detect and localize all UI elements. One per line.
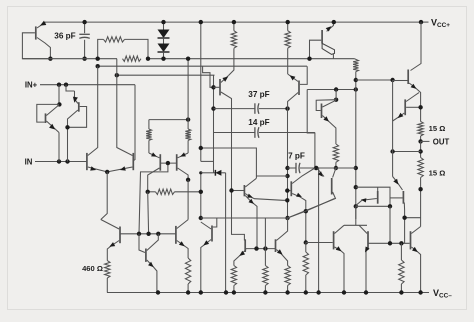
resistor R15 — [418, 122, 423, 137]
svg-text:IN: IN — [25, 157, 33, 166]
node C4 wire junction — [314, 166, 319, 171]
transistor Q24 — [367, 231, 369, 249]
node input pair emitter junction — [105, 170, 109, 174]
node Q17 emitter on rail — [332, 20, 336, 24]
node y151 junction left — [390, 149, 394, 153]
svg-text:IN+: IN+ — [25, 81, 38, 90]
wire x187 column — [187, 180, 189, 220]
wire x390 column — [389, 206, 391, 243]
node rail junction x201 — [199, 20, 203, 24]
node e1 junction — [285, 198, 289, 202]
node D1 anode on rail — [161, 20, 165, 24]
node y89 junction 1 — [334, 87, 338, 91]
transistor Q2 input left — [86, 153, 88, 170]
node line B tap — [96, 64, 100, 68]
node pushbus junction 2 — [263, 246, 267, 250]
wire input clamp column x59 — [58, 85, 60, 105]
wire node A bus (line A) — [22, 58, 117, 60]
wire rail drop x201 — [200, 22, 202, 161]
node IN+ junction 1 — [57, 83, 61, 87]
node 37pF left junction — [211, 106, 215, 110]
resistor R18 — [303, 252, 308, 275]
wire x392.6 column — [392, 80, 394, 177]
diode D1 — [163, 22, 165, 29]
wire collector trapezoid — [344, 224, 367, 226]
node y218 left junction — [199, 216, 203, 220]
node bus junction 2 — [146, 232, 150, 236]
svg-text:37 pF: 37 pF — [248, 90, 269, 99]
wire tail — [101, 172, 107, 220]
transistor Q23 — [333, 231, 335, 249]
resistor R8 — [185, 258, 190, 284]
transistor Q18 — [335, 90, 337, 100]
wire OUT stub — [421, 140, 430, 142]
node Q24 emitter on rail — [364, 290, 368, 294]
wire y119 bus — [149, 119, 188, 121]
transistor Q4 — [78, 102, 80, 112]
node x287.5 bottom junction — [285, 216, 289, 220]
resistor R16 — [418, 158, 423, 178]
node Q13 emitter on rail — [199, 290, 203, 294]
transistor Q1 — [35, 26, 37, 39]
transistor Q20 — [411, 22, 422, 70]
node y80 right junction — [390, 78, 394, 82]
node Q23 base junction — [304, 240, 308, 244]
svg-text:7 pF: 7 pF — [288, 152, 305, 161]
node R1 right junction — [146, 57, 150, 61]
wire x305.8 riser — [305, 211, 307, 242]
node Q19a base junction — [285, 188, 289, 192]
node y151 junction right — [418, 149, 422, 153]
wire line B — [98, 65, 307, 67]
resistor R3 — [233, 22, 235, 31]
wire x287.5 column — [287, 109, 289, 218]
svg-text:36 pF: 36 pF — [54, 32, 75, 41]
node x355 junction 1 — [354, 78, 358, 82]
transistor Q12 — [175, 226, 177, 244]
resistor R4 — [148, 120, 150, 129]
wire IN+ lead — [40, 84, 135, 86]
wire y218 bus — [201, 217, 288, 219]
wire y243 bus — [368, 242, 410, 244]
resistor R1 — [98, 39, 104, 58]
svg-text:14 pF: 14 pF — [248, 118, 269, 127]
node bus junction 1 — [137, 232, 141, 236]
svg-text:15 Ω: 15 Ω — [429, 169, 446, 178]
node IN+ junction 2 — [64, 83, 68, 87]
transistor Q16 pnp — [288, 74, 298, 82]
transistor Q21 upper — [404, 99, 406, 115]
transistor Q11 — [145, 249, 147, 262]
wire line B loop to Q16 base — [300, 66, 307, 84]
node Q25 emitter on rail — [418, 290, 422, 294]
node pushbus junction 1 — [254, 246, 258, 250]
node x287.5 mid junction — [285, 174, 289, 178]
wire Q8 Q9 base tie — [160, 162, 176, 164]
node D2 cathode junction — [161, 57, 165, 61]
wire x317.6 drop to rail — [318, 168, 320, 293]
wire y89 bus — [307, 89, 356, 91]
node OUT junction — [418, 139, 422, 143]
node y243 junction 1 — [388, 241, 392, 245]
node x317.6 on rail — [316, 290, 320, 294]
node Q4 base-collector junction — [65, 125, 69, 129]
node x355 junction 4 — [354, 204, 358, 208]
wire x148.9 column — [147, 192, 150, 234]
node Q7 base junction — [229, 188, 233, 192]
wire y80 bus — [356, 79, 393, 81]
node R6 right junction — [199, 190, 203, 194]
node Q23 emitter on rail — [342, 290, 346, 294]
node y206 junction — [388, 204, 392, 208]
node R11 bottom on rail — [285, 290, 289, 294]
resistor R14 — [355, 58, 356, 61]
resistor R10 — [264, 249, 266, 266]
transistor Q17 big pnp — [327, 22, 334, 31]
svg-text:OUT: OUT — [433, 138, 450, 147]
resistor R6 — [148, 191, 156, 193]
node y89 junction 2 — [354, 87, 358, 91]
wire top V_CC+ rail — [46, 21, 421, 23]
resistor R7 460 — [105, 261, 110, 278]
capacitor C1 36pF — [84, 22, 86, 33]
node Q6 base junction — [211, 85, 215, 89]
wire line C drop x214.5 — [213, 75, 215, 173]
transistor Q25 — [410, 231, 412, 249]
wire out column — [420, 141, 422, 157]
wire input clamp column x66 — [66, 85, 75, 91]
capacitor C2 37pF — [214, 108, 255, 110]
node R5 top on line A — [186, 57, 190, 61]
capacitor C4 7pF — [288, 167, 297, 169]
resistor R11 — [285, 266, 290, 286]
transistor Q19a — [290, 181, 292, 196]
transistor Q15 — [275, 239, 277, 252]
capacitor C3 14pF — [214, 132, 255, 134]
resistor R5 — [187, 59, 189, 129]
resistor R9 — [231, 266, 236, 286]
node x355 junction 3 — [354, 185, 358, 189]
node R18 bottom on rail — [304, 290, 308, 294]
node C1 bottom — [82, 57, 86, 61]
node line C tap — [115, 73, 119, 77]
wire y206 link — [356, 205, 390, 207]
node R1 left junction — [96, 57, 100, 61]
transistor Q7 dual emitter — [243, 185, 245, 196]
wire Q14 Q15 base bus — [245, 248, 275, 250]
node D3 line on rail — [224, 290, 228, 294]
resistor R2 — [123, 56, 142, 61]
node R12 top on rail — [286, 20, 290, 24]
wire diagonal — [288, 199, 335, 219]
wire base bus y234 — [120, 233, 176, 235]
node R9 bottom on rail — [232, 290, 236, 294]
wire x265 riser — [264, 218, 266, 249]
node bus junction 3 — [156, 232, 160, 236]
node R16 bottom junction — [418, 187, 422, 191]
node IN- junction 2 — [65, 159, 69, 163]
transistor Q19b — [317, 169, 324, 177]
node x187 junction — [186, 178, 190, 182]
transistor Q22 vbe — [356, 187, 390, 206]
wire y151 link — [393, 151, 421, 153]
wire bottom V_CC- rail — [107, 292, 429, 294]
node C2 right junction — [285, 106, 289, 110]
node base tie junction — [166, 161, 170, 165]
node x355 junction 2 — [354, 166, 358, 170]
node Q21 base junction — [418, 105, 422, 109]
node V_CC+ terminal — [419, 20, 423, 24]
wire x355.8 column — [355, 80, 357, 219]
node diag junction — [304, 209, 308, 213]
wire x420.6 column — [420, 224, 422, 227]
svg-text:15 Ω: 15 Ω — [429, 124, 446, 133]
transistor Q13 pnp — [201, 222, 211, 229]
node Q1 collector junction — [48, 57, 52, 61]
node clamp base junction — [57, 102, 61, 106]
diode D3 — [201, 172, 216, 174]
node D3 corner — [199, 171, 202, 174]
node R8 bottom on rail — [186, 290, 190, 294]
resistor R12 — [287, 22, 289, 31]
node IN- junction 1 — [57, 159, 61, 163]
node R17 bottom on rail — [399, 290, 403, 294]
transistor Q5 input right — [132, 153, 134, 170]
transistor Q8 mirror left — [159, 154, 161, 171]
node R13 bottom junction — [334, 166, 338, 170]
wire y176 link — [256, 175, 287, 177]
transistor Q21 pnp — [393, 177, 403, 191]
transistor Q3 — [45, 113, 47, 123]
node y148 junction — [199, 146, 203, 150]
node y243 junction 2 — [399, 241, 403, 245]
transistor Q6 — [219, 79, 221, 95]
diode D2 — [163, 38, 165, 44]
node 7pF left junction — [285, 166, 289, 170]
node Q17 base on line A — [307, 57, 311, 61]
wire line B to Q6 base jog — [203, 66, 214, 87]
wire Q23 base wire — [306, 242, 333, 244]
node Q11 emitter on rail — [156, 290, 160, 294]
transistor Q14 — [244, 239, 246, 252]
wire IN- lead — [35, 161, 87, 163]
wire Q1 base loop — [22, 33, 50, 59]
node C1 top — [82, 20, 86, 24]
wire y148 — [201, 148, 257, 178]
svg-text:460 Ω: 460 Ω — [82, 264, 103, 273]
node R6 left junction — [146, 190, 150, 194]
node R10 bottom on rail — [263, 290, 267, 294]
node y119 junction — [186, 117, 190, 121]
node Q21 collector junction — [402, 216, 406, 220]
node R3 top on rail — [232, 20, 236, 24]
resistor R17 — [400, 243, 402, 260]
resistor R13 — [333, 144, 338, 162]
wire line C — [117, 74, 215, 76]
transistor Q9 mirror right — [176, 154, 178, 171]
node Q18 collector junction — [334, 98, 338, 102]
wire Q3 base wire — [37, 104, 59, 122]
transistor Q10 — [119, 227, 121, 244]
